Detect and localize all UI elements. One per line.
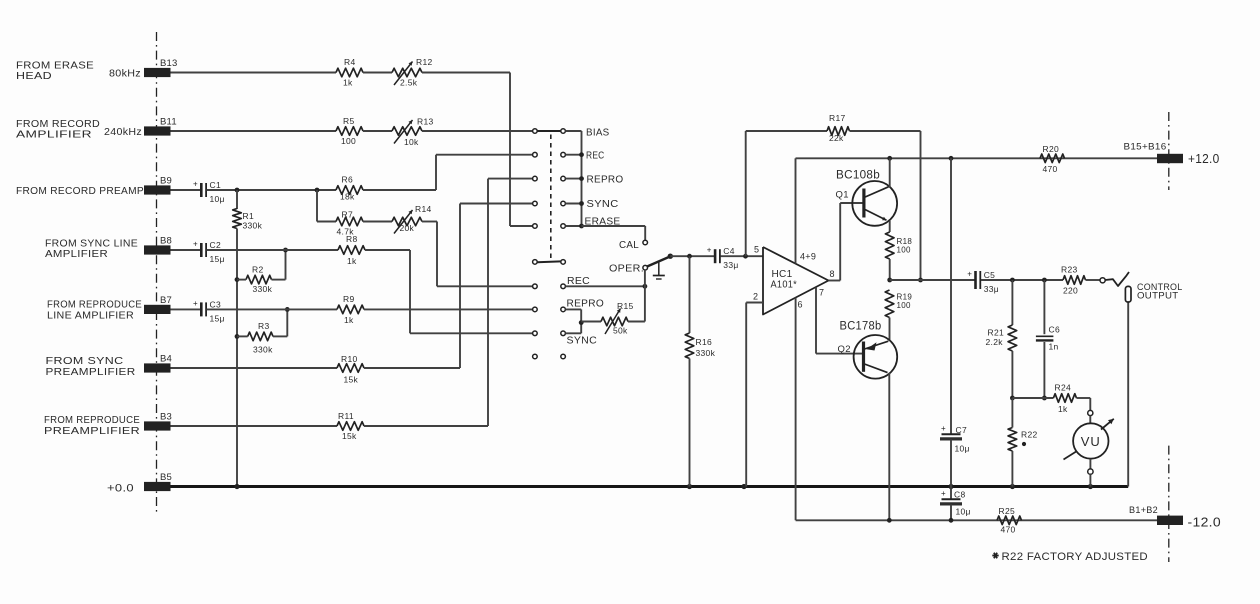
svg-text:B1+B2: B1+B2 bbox=[1129, 505, 1158, 516]
svg-text:1n: 1n bbox=[1049, 341, 1059, 351]
svg-text:B8: B8 bbox=[160, 236, 172, 247]
svg-text:R23: R23 bbox=[1061, 265, 1078, 275]
svg-text:B4: B4 bbox=[160, 354, 172, 365]
svg-text:+12.0: +12.0 bbox=[1188, 151, 1220, 166]
svg-text:100: 100 bbox=[341, 136, 356, 146]
svg-text:1k: 1k bbox=[344, 315, 354, 325]
svg-text:8: 8 bbox=[830, 269, 835, 279]
svg-text:ERASE: ERASE bbox=[585, 216, 621, 228]
svg-text:6: 6 bbox=[798, 300, 803, 310]
svg-text:15μ: 15μ bbox=[210, 254, 225, 264]
svg-text:+: + bbox=[941, 489, 946, 498]
svg-text:R21: R21 bbox=[988, 328, 1005, 338]
svg-text:C7: C7 bbox=[956, 425, 967, 435]
svg-text:15μ: 15μ bbox=[210, 313, 225, 323]
svg-text:2.2k: 2.2k bbox=[986, 337, 1004, 347]
svg-text:AMPLIFIER: AMPLIFIER bbox=[16, 129, 92, 141]
svg-text:R7: R7 bbox=[342, 209, 353, 219]
svg-text:R22 FACTORY ADJUSTED: R22 FACTORY ADJUSTED bbox=[1002, 551, 1149, 563]
svg-text:+: + bbox=[193, 180, 198, 189]
svg-text:R4: R4 bbox=[344, 57, 355, 67]
svg-text:220: 220 bbox=[1063, 285, 1078, 295]
svg-text:C2: C2 bbox=[210, 240, 221, 250]
svg-text:330k: 330k bbox=[696, 348, 716, 358]
svg-text:240kHz: 240kHz bbox=[104, 127, 142, 138]
svg-text:20k: 20k bbox=[400, 223, 415, 233]
svg-text:BC178b: BC178b bbox=[840, 321, 882, 333]
svg-text:10μ: 10μ bbox=[210, 194, 225, 204]
svg-text:10μ: 10μ bbox=[956, 507, 971, 517]
svg-text:R10: R10 bbox=[341, 354, 358, 364]
svg-text:1k: 1k bbox=[343, 77, 353, 87]
svg-text:+: + bbox=[967, 270, 972, 279]
svg-text:HEAD: HEAD bbox=[16, 70, 52, 82]
svg-text:22k: 22k bbox=[829, 133, 844, 143]
svg-text:R15: R15 bbox=[617, 301, 634, 311]
svg-text:FROM RECORD PREAMP: FROM RECORD PREAMP bbox=[16, 185, 144, 197]
svg-text:80kHz: 80kHz bbox=[109, 69, 141, 80]
svg-text:R6: R6 bbox=[342, 175, 353, 185]
svg-text:R16: R16 bbox=[696, 337, 713, 347]
svg-text:470: 470 bbox=[1043, 164, 1058, 174]
svg-text:HC1: HC1 bbox=[772, 269, 793, 280]
svg-text:7: 7 bbox=[819, 288, 824, 298]
svg-text:R3: R3 bbox=[258, 321, 269, 331]
svg-text:B7: B7 bbox=[160, 295, 172, 306]
svg-text:33μ: 33μ bbox=[723, 260, 738, 270]
svg-text:15k: 15k bbox=[342, 431, 357, 441]
svg-text:PREAMPLIFIER: PREAMPLIFIER bbox=[44, 425, 140, 437]
svg-text:2: 2 bbox=[753, 292, 758, 302]
svg-text:4+9: 4+9 bbox=[800, 252, 816, 262]
svg-text:Q1: Q1 bbox=[836, 190, 849, 201]
svg-text:+: + bbox=[707, 246, 712, 255]
svg-text:R17: R17 bbox=[829, 113, 846, 123]
svg-text:SYNC: SYNC bbox=[567, 334, 598, 346]
svg-text:B5: B5 bbox=[160, 472, 172, 483]
svg-text:BC108b: BC108b bbox=[836, 170, 880, 182]
svg-text:5: 5 bbox=[754, 245, 759, 255]
svg-text:+0.0: +0.0 bbox=[107, 483, 134, 495]
svg-text:1k: 1k bbox=[347, 256, 357, 266]
svg-text:100: 100 bbox=[897, 246, 911, 255]
svg-text:AMPLIFIER: AMPLIFIER bbox=[45, 248, 108, 260]
svg-text:R9: R9 bbox=[343, 294, 354, 304]
svg-text:OUTPUT: OUTPUT bbox=[1137, 290, 1179, 301]
svg-text:+: + bbox=[941, 424, 946, 433]
svg-text:+: + bbox=[193, 299, 198, 308]
svg-text:LINE AMPLIFIER: LINE AMPLIFIER bbox=[47, 310, 134, 322]
svg-text:R20: R20 bbox=[1043, 144, 1060, 154]
svg-text:2.5k: 2.5k bbox=[400, 77, 418, 87]
svg-text:B9: B9 bbox=[160, 176, 172, 187]
svg-text:C4: C4 bbox=[723, 246, 734, 256]
svg-text:CAL: CAL bbox=[619, 239, 639, 251]
svg-text:PREAMPLIFIER: PREAMPLIFIER bbox=[46, 366, 136, 378]
svg-text:VU: VU bbox=[1081, 434, 1101, 449]
svg-text:R1: R1 bbox=[243, 211, 254, 221]
svg-text:C6: C6 bbox=[1049, 325, 1060, 335]
svg-text:10k: 10k bbox=[404, 137, 419, 147]
svg-text:R14: R14 bbox=[415, 204, 432, 214]
svg-text:B11: B11 bbox=[160, 117, 177, 128]
svg-text:R12: R12 bbox=[416, 57, 433, 67]
svg-text:R5: R5 bbox=[343, 116, 354, 126]
svg-text:33μ: 33μ bbox=[984, 284, 999, 294]
svg-text:10μ: 10μ bbox=[955, 444, 970, 454]
svg-text:50k: 50k bbox=[613, 326, 628, 336]
svg-text:A101*: A101* bbox=[771, 280, 798, 291]
svg-text:R8: R8 bbox=[346, 234, 357, 244]
svg-text:REC: REC bbox=[567, 275, 590, 287]
svg-text:C3: C3 bbox=[210, 299, 221, 309]
svg-text:OPER.: OPER. bbox=[609, 263, 644, 275]
svg-text:B13: B13 bbox=[160, 58, 178, 69]
svg-text:R25: R25 bbox=[999, 506, 1016, 516]
svg-text:REPRO: REPRO bbox=[587, 174, 624, 186]
svg-text:-12.0: -12.0 bbox=[1188, 515, 1222, 530]
svg-text:330k: 330k bbox=[253, 345, 273, 355]
svg-text:B3: B3 bbox=[160, 412, 172, 423]
svg-text:R11: R11 bbox=[338, 411, 354, 421]
svg-text:1k: 1k bbox=[1058, 404, 1068, 414]
svg-text:Q2: Q2 bbox=[838, 344, 851, 355]
svg-text:C5: C5 bbox=[984, 270, 995, 280]
svg-text:100: 100 bbox=[897, 301, 911, 310]
svg-text:R13: R13 bbox=[417, 117, 434, 127]
svg-text:330k: 330k bbox=[243, 221, 263, 231]
svg-text:+: + bbox=[193, 240, 198, 249]
svg-text:REPRO: REPRO bbox=[567, 298, 605, 310]
svg-text:C1: C1 bbox=[210, 180, 221, 190]
svg-text:R24: R24 bbox=[1055, 382, 1072, 392]
svg-text:15k: 15k bbox=[344, 374, 359, 384]
svg-text:470: 470 bbox=[1001, 525, 1016, 535]
svg-text:B15+B16: B15+B16 bbox=[1124, 142, 1167, 153]
svg-text:18k: 18k bbox=[340, 192, 355, 202]
svg-text:R2: R2 bbox=[252, 265, 263, 275]
svg-text:C8: C8 bbox=[954, 490, 965, 500]
svg-text:REC: REC bbox=[586, 149, 605, 161]
svg-text:BIAS: BIAS bbox=[586, 127, 610, 139]
svg-text:SYNC: SYNC bbox=[587, 198, 619, 210]
svg-text:R22: R22 bbox=[1021, 430, 1038, 440]
svg-text:330k: 330k bbox=[253, 284, 273, 294]
